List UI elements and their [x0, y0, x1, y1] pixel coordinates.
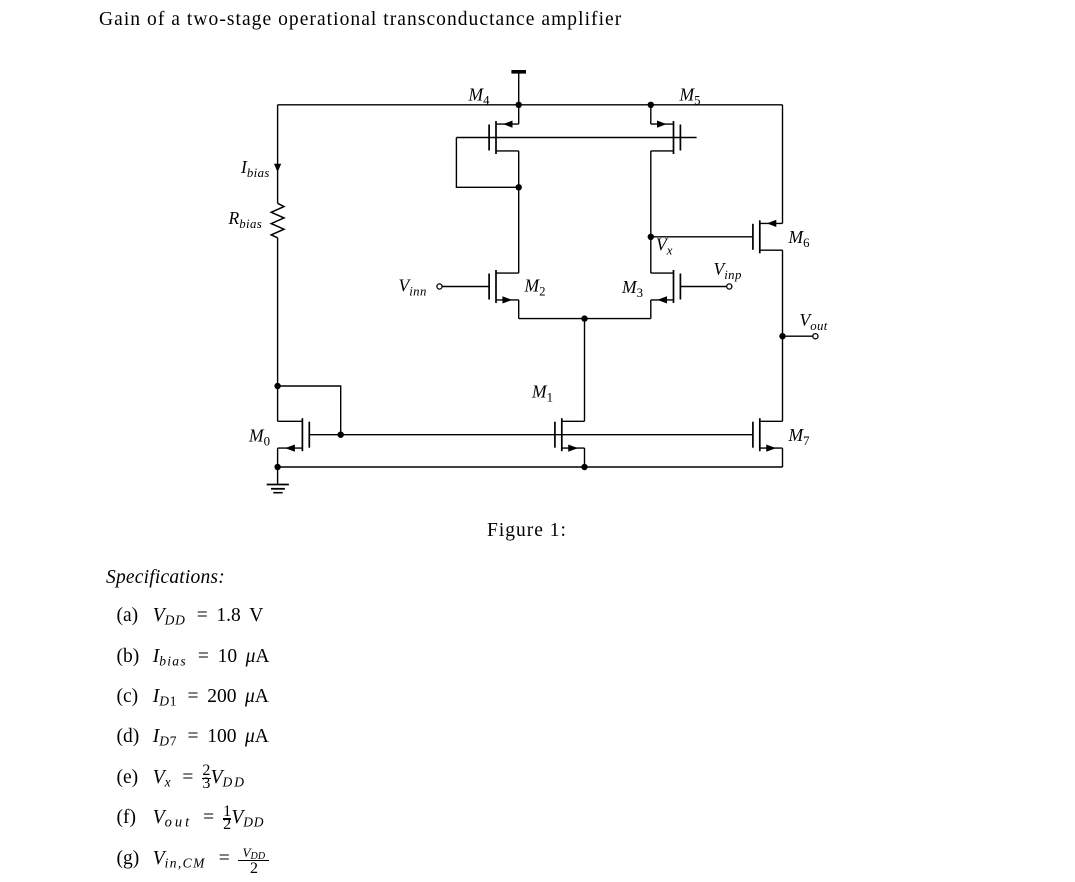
- transistor M5: [651, 121, 681, 155]
- wire top rail to M6 source: [782, 105, 784, 224]
- wire M4 diode connection (gate to drain): [456, 138, 518, 188]
- wire M5 source stub: [650, 105, 652, 124]
- label M6: [788, 227, 811, 250]
- spec item (f) Vout = 1/2 VDD: [117, 807, 265, 829]
- wire M2 source to tail: [518, 300, 520, 319]
- wire bottom ground rail: [278, 466, 783, 468]
- label Vx: [656, 235, 673, 258]
- transistor M7: [753, 418, 783, 452]
- svg-text:M5: M5: [679, 85, 701, 108]
- wire gate bus M4 to M5: [456, 137, 696, 139]
- wire gate bus M0-M1-M7: [309, 434, 753, 436]
- caption Figure 1:: [487, 520, 567, 542]
- svg-text:M6: M6: [788, 227, 811, 250]
- svg-text:Rbias: Rbias: [228, 208, 263, 231]
- spec item (g) Vin,CM = VDD/2: [117, 848, 270, 870]
- transistor M3: [651, 270, 681, 304]
- transistor M2: [489, 270, 519, 304]
- svg-text:M7: M7: [788, 425, 811, 448]
- label M1: [531, 382, 553, 405]
- wire Vout to M7 drain: [782, 336, 784, 421]
- power VDD supply symbol: [511, 72, 526, 105]
- wire node Vx to M6 gate: [651, 236, 753, 238]
- node M1 source junction: [581, 464, 587, 470]
- label Vout: [800, 310, 828, 333]
- wire M5 drain to node Vx: [650, 151, 652, 237]
- wire top supply rail: [278, 104, 783, 106]
- wire left bias branch (top rail to resistor): [277, 105, 279, 204]
- wire tail node rail: [519, 318, 651, 320]
- node tail junction: [581, 315, 587, 321]
- transistor M1: [555, 418, 585, 452]
- title: Gain of a two-stage operational transconductance amplifier: [99, 9, 622, 31]
- wire M3 source to tail: [650, 300, 652, 319]
- wire tail to M1 drain: [584, 319, 586, 422]
- wire resistor to M0 drain: [277, 238, 279, 421]
- wire Vx to M3 drain: [650, 237, 652, 273]
- spec item (e) Vx = 2/3 VDD: [117, 767, 247, 789]
- svg-text:Vinp: Vinp: [714, 259, 742, 282]
- terminal Vinn input: [437, 284, 489, 289]
- node ground rail left junction: [274, 464, 280, 470]
- label Vinn: [399, 276, 427, 299]
- current arrow Ibias: [274, 164, 281, 173]
- wire M7 source down: [782, 448, 784, 467]
- resistor Rbias: [271, 203, 284, 238]
- wire M4 source stub: [518, 105, 520, 124]
- node Vx junction: [648, 234, 654, 240]
- transistor M4: [489, 121, 519, 155]
- node top rail / M4 junction: [516, 102, 522, 108]
- svg-text:M1: M1: [531, 382, 553, 405]
- wire M4 drain to M2 drain: [518, 151, 520, 273]
- wire M6 drain to node Vout: [782, 250, 784, 336]
- wire M1 source down: [584, 448, 586, 467]
- label M4: [468, 85, 491, 108]
- label Ibias: [240, 157, 270, 180]
- label M0: [248, 426, 270, 449]
- spec item (a) VDD = 1.8 V: [117, 605, 264, 627]
- transistor M0: [278, 418, 310, 452]
- heading Specifications: [106, 567, 225, 589]
- svg-text:Ibias: Ibias: [240, 157, 270, 180]
- wire bias tap to M0 gate: [278, 386, 341, 435]
- svg-text:Vinn: Vinn: [399, 276, 427, 299]
- node M0 gate junction: [338, 432, 344, 438]
- wire M0 source to ground rail: [277, 448, 279, 467]
- node top rail / M5 junction: [648, 102, 654, 108]
- node M4 drain junction: [516, 184, 522, 190]
- svg-text:M0: M0: [248, 426, 270, 449]
- label M5: [679, 85, 701, 108]
- ground: [267, 467, 289, 493]
- svg-text:M2: M2: [524, 276, 546, 299]
- svg-text:M3: M3: [621, 277, 643, 300]
- label Vinp: [714, 259, 742, 282]
- label M3: [621, 277, 643, 300]
- svg-text:Vx: Vx: [656, 235, 673, 258]
- label M7: [788, 425, 811, 448]
- svg-text:M4: M4: [468, 85, 491, 108]
- spec item (b) Ibias = 10 uA: [117, 646, 270, 668]
- label M2: [524, 276, 546, 299]
- label Rbias: [228, 208, 263, 231]
- terminal Vout output: [783, 334, 819, 339]
- terminal Vinp input: [680, 284, 732, 289]
- transistor M6: [753, 220, 783, 254]
- svg-text:Vout: Vout: [800, 310, 828, 333]
- node bias tap junction: [274, 383, 280, 389]
- spec item (d) ID7 = 100 uA: [117, 726, 269, 748]
- spec item (c) ID1 = 200 uA: [117, 686, 269, 708]
- node Vout junction: [779, 333, 785, 339]
